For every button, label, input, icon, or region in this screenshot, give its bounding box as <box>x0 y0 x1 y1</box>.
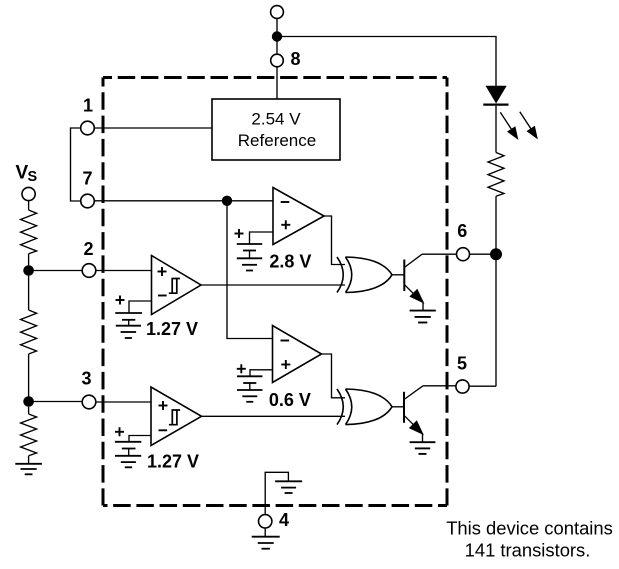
wire <box>495 106 497 153</box>
terminal V+ (top) <box>271 6 284 19</box>
comparator A3 (0.6 V) <box>273 326 322 383</box>
junction dot <box>490 248 502 260</box>
wire <box>202 415 346 417</box>
2.54 V reference box U1 <box>212 99 340 160</box>
svg-text:2: 2 <box>83 239 93 259</box>
pin 6 <box>457 248 470 261</box>
transistor Q2 <box>403 392 405 423</box>
battery B3 (0.6 V) <box>250 370 273 377</box>
pin 1 <box>81 121 95 135</box>
pin 8 <box>271 54 284 67</box>
junction dot node A <box>222 196 232 206</box>
wire <box>277 37 496 87</box>
pin 2 <box>82 264 96 278</box>
wire <box>28 254 30 266</box>
junction dot <box>23 265 34 276</box>
svg-text:8: 8 <box>290 49 300 69</box>
XOR gate G1 <box>337 257 392 293</box>
comparator A4 (1.27 V schmitt) <box>151 387 202 446</box>
svg-text:4: 4 <box>279 510 289 530</box>
wire <box>392 274 404 276</box>
svg-text:1.27 V: 1.27 V <box>147 452 199 472</box>
svg-text:5: 5 <box>457 354 467 374</box>
svg-text:2.54 V: 2.54 V <box>251 110 301 129</box>
svg-text:6: 6 <box>457 221 467 241</box>
wire <box>392 406 404 408</box>
svg-text:7: 7 <box>82 169 92 189</box>
IC boundary (dashed) <box>103 78 447 506</box>
ground <box>410 442 436 454</box>
LED D1 <box>486 86 507 104</box>
wire <box>322 354 346 398</box>
junction dot <box>272 31 282 41</box>
XOR gate G2 <box>337 389 392 425</box>
wire <box>28 407 30 414</box>
ground <box>252 537 280 549</box>
wire <box>96 401 151 403</box>
transistor Q1 <box>403 260 405 292</box>
ground <box>115 456 141 468</box>
pin 4 <box>259 515 272 528</box>
battery B1 (1.27 V) <box>129 301 152 313</box>
comparator A1 (1.27 V schmitt) <box>152 256 202 315</box>
svg-text:Reference: Reference <box>238 131 316 150</box>
wire <box>28 456 30 464</box>
svg-text:1: 1 <box>83 96 93 116</box>
wire <box>470 253 492 255</box>
pin 7 <box>81 194 95 208</box>
wire <box>96 270 152 272</box>
wire <box>276 42 278 55</box>
battery B2 (2.8 V) <box>250 232 274 244</box>
wire <box>94 127 212 129</box>
ground <box>237 258 262 270</box>
ground (internal) <box>265 472 288 514</box>
resistor R3 <box>21 414 37 456</box>
wire <box>423 385 456 387</box>
wire <box>276 18 278 32</box>
wire <box>227 201 273 339</box>
svg-text:1.27 V: 1.27 V <box>146 319 198 339</box>
svg-text:S: S <box>28 169 38 185</box>
wire <box>29 401 83 403</box>
wire <box>29 270 83 272</box>
svg-text:0.6 V: 0.6 V <box>269 390 311 410</box>
wire <box>94 200 273 202</box>
light arrow <box>520 112 532 131</box>
junction dot <box>23 396 34 407</box>
wire strap pin1-pin7 <box>71 128 81 201</box>
wire <box>469 385 496 387</box>
resistor R4 <box>488 153 504 197</box>
ground <box>15 464 42 475</box>
light arrow <box>500 112 512 131</box>
svg-text:141 transistors.: 141 transistors. <box>465 540 591 561</box>
battery B4 (1.27 V) <box>129 436 151 442</box>
wire <box>495 196 497 386</box>
wire <box>276 67 278 99</box>
svg-text:This device contains: This device contains <box>446 518 613 539</box>
svg-text:3: 3 <box>81 369 91 389</box>
resistor R1 <box>21 210 37 254</box>
resistor R2 <box>21 310 37 354</box>
ground <box>237 390 263 402</box>
wire <box>422 253 457 255</box>
wire <box>28 354 30 397</box>
terminal Vs <box>22 187 35 200</box>
comparator A2 (2.8 V) <box>273 188 324 245</box>
ground <box>116 326 141 338</box>
pin 3 <box>82 395 96 409</box>
wire <box>28 276 30 310</box>
svg-text:2.8 V: 2.8 V <box>269 252 311 272</box>
wire <box>264 528 266 537</box>
wire <box>324 216 345 265</box>
ground <box>410 311 436 323</box>
pin 5 <box>456 380 469 393</box>
wire <box>201 284 345 286</box>
wire <box>28 201 30 210</box>
